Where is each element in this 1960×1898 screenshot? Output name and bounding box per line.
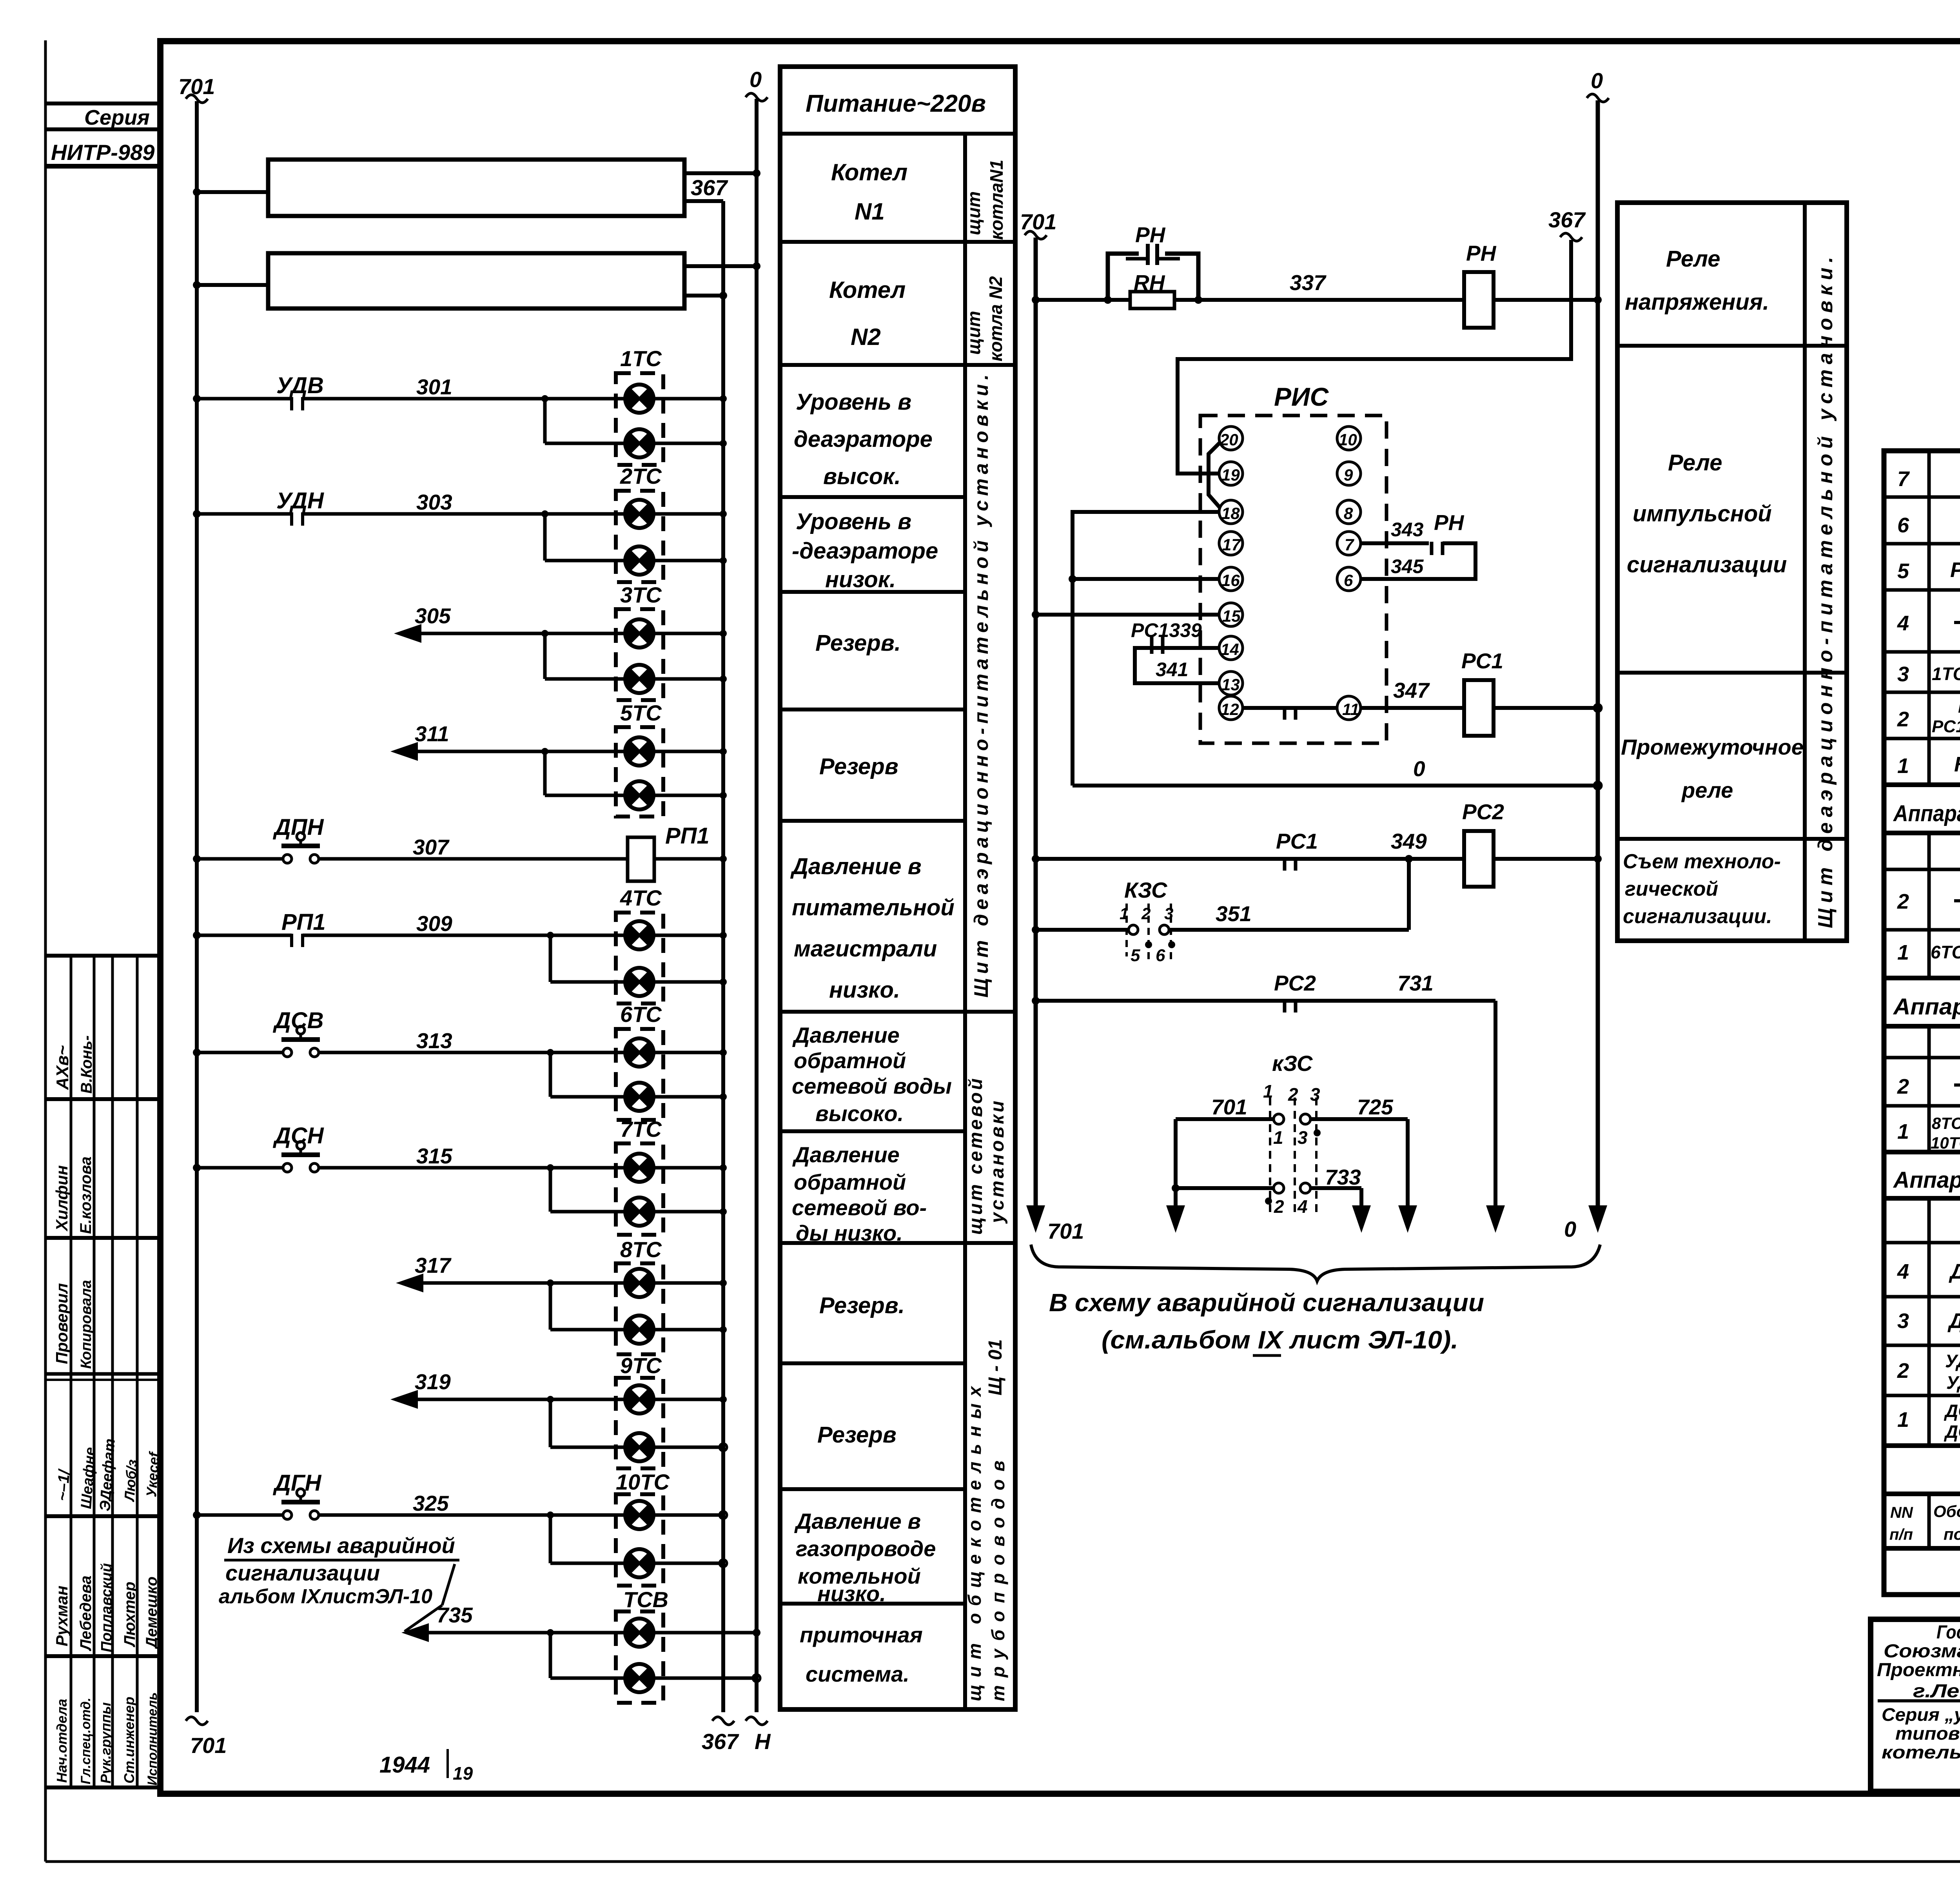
wire 0 row: [1073, 784, 1598, 788]
svg-text:325: 325: [413, 1491, 449, 1515]
terminal 19: [1219, 462, 1243, 485]
svg-text:10ТС; ТСВ: 10ТС; ТСВ: [1931, 1134, 1960, 1152]
svg-text:РИС: РИС: [1274, 382, 1329, 411]
svg-text:питательной: питательной: [792, 895, 955, 920]
wire t18 left and down to 0 row: [1073, 512, 1219, 786]
svg-text:2: 2: [1897, 708, 1909, 731]
svg-text:щит: щит: [964, 311, 984, 355]
svg-text:Промежуточное: Промежуточное: [1621, 735, 1804, 759]
terminal 17: [1219, 532, 1243, 555]
svg-text:735: 735: [437, 1603, 473, 1627]
terminal 8: [1337, 500, 1361, 524]
resistor RH: [1130, 292, 1174, 308]
svg-text:Нач.отдела: Нач.отдела: [54, 1699, 70, 1783]
svg-text:1: 1: [1897, 941, 1909, 964]
svg-text:345: 345: [1391, 555, 1424, 577]
svg-text:Резерв: Резерв: [819, 754, 898, 779]
svg-text:1: 1: [1897, 1408, 1909, 1432]
svg-text:7ТС: 7ТС: [620, 1117, 662, 1141]
lamp: [625, 968, 654, 996]
svg-text:п/п: п/п: [1889, 1526, 1913, 1543]
svg-text:Реле: Реле: [1668, 450, 1722, 475]
svg-text:Давление в: Давление в: [790, 854, 922, 879]
svg-text:сигнализации: сигнализации: [1627, 552, 1787, 577]
wire 731 with contact PC2: [1036, 999, 1495, 1003]
svg-text:РН: РН: [1466, 241, 1497, 265]
svg-text:обратной: обратной: [794, 1170, 906, 1194]
brace: [1031, 1245, 1600, 1281]
svg-text:Аппаратура на щите общекотель: Аппаратура на щите общекотельных трубопр…: [1893, 1167, 1960, 1193]
lamp: [625, 1083, 654, 1111]
contact RN in branch: [1146, 244, 1150, 265]
wire t15 from bus: [1036, 613, 1219, 617]
outer thin border left: [44, 40, 47, 1862]
svg-text:Госстрой СССР: Госстрой СССР: [1936, 1622, 1960, 1643]
vertical left of KZS group: [1174, 1119, 1178, 1207]
svg-text:9: 9: [1344, 466, 1353, 484]
lamp: [625, 737, 654, 766]
lamp: [625, 1433, 654, 1461]
svg-text:3: 3: [1897, 662, 1909, 686]
svg-text:Проверил: Проверил: [53, 1283, 71, 1364]
relay coil RP1: [628, 837, 654, 881]
svg-text:343: 343: [1391, 519, 1424, 541]
svg-text:1: 1: [1263, 1081, 1273, 1101]
svg-text:Серия „унифицированных: Серия „унифицированных: [1882, 1704, 1960, 1725]
svg-text:реле: реле: [1681, 778, 1733, 802]
svg-text:6ТС: 6ТС: [620, 1002, 662, 1027]
svg-text:305: 305: [415, 604, 451, 628]
svg-text:701: 701: [1047, 1219, 1084, 1243]
terminal 16: [1219, 567, 1243, 591]
svg-text:РС1339: РС1339: [1131, 619, 1202, 641]
svg-text:Уровень в: Уровень в: [796, 509, 911, 534]
terminal 15: [1219, 603, 1243, 626]
LEFT LADDER SCHEMATIC: [178, 67, 771, 1784]
svg-text:РП1: РП1: [281, 909, 326, 935]
LEFT SIDE STAMP: [45, 103, 162, 1787]
sub column divider: [963, 134, 967, 1709]
terminal 13: [1219, 671, 1243, 695]
svg-text:3: 3: [1164, 904, 1173, 923]
svg-text:Щит деаэрационно-питательной у: Щит деаэрационно-питательной установки.: [1814, 252, 1837, 928]
svg-text:5ТС: 5ТС: [620, 700, 662, 725]
svg-text:3ТС: 3ТС: [620, 582, 662, 607]
svg-text:2: 2: [1141, 904, 1151, 923]
svg-text:ДСН: ДСН: [1944, 1421, 1960, 1442]
arrow down bus 0: [1588, 1205, 1607, 1233]
svg-text:8ТС: 8ТС: [620, 1237, 662, 1262]
svg-text:301: 301: [416, 375, 452, 399]
svg-text:Резерв.: Резерв.: [815, 630, 901, 656]
wire box1 to 0: [684, 171, 757, 175]
svg-text:Котел: Котел: [831, 159, 907, 185]
svg-text:-деаэраторе: -деаэраторе: [792, 538, 938, 564]
svg-text:3: 3: [1310, 1084, 1320, 1105]
svg-text:напряжения.: напряжения.: [1625, 289, 1769, 315]
lamp: [625, 1501, 654, 1529]
svg-text:АХв~: АХв~: [53, 1045, 72, 1090]
svg-text:725: 725: [1357, 1095, 1394, 1119]
svg-text:4: 4: [1897, 1260, 1909, 1283]
wire t16: [1073, 577, 1219, 581]
svg-text:кЗС: кЗС: [1272, 1051, 1313, 1076]
RIGHT TALL ANNOTATION TABLE: [1617, 203, 1847, 941]
svg-text:ТСВ: ТСВ: [623, 1587, 668, 1612]
svg-text:4: 4: [1297, 1196, 1308, 1217]
svg-text:сетевой во-: сетевой во-: [792, 1195, 927, 1220]
svg-text:0: 0: [1413, 757, 1425, 781]
svg-text:установки: установки: [987, 1098, 1008, 1224]
svg-text:7: 7: [1345, 535, 1354, 554]
svg-text:РН: РН: [1135, 223, 1166, 247]
row 9: wire 317 arrow, lamp 8TC: [396, 1274, 423, 1292]
row lines: [780, 132, 1015, 136]
svg-text:10ТС: 10ТС: [616, 1470, 670, 1494]
svg-text:N2: N2: [851, 324, 881, 350]
terminal 20: [1219, 426, 1243, 450]
boiler box 2: [268, 253, 684, 308]
svg-text:Лебедева: Лебедева: [77, 1575, 94, 1651]
seriya box: [45, 102, 160, 105]
svg-text:3: 3: [1897, 1309, 1909, 1333]
svg-text:Демешко: Демешко: [143, 1577, 160, 1649]
svg-text:РП1: РП1: [1958, 697, 1960, 717]
svg-text:313: 313: [416, 1029, 452, 1053]
arrow down bus 701: [1026, 1205, 1045, 1233]
svg-text:309: 309: [416, 911, 452, 936]
svg-text:1944: 1944: [379, 1752, 430, 1778]
svg-text:367: 367: [1548, 207, 1586, 232]
svg-text:УДН: УДН: [276, 488, 324, 514]
svg-text:ды низко.: ды низко.: [796, 1221, 903, 1245]
terminal 11: [1337, 696, 1361, 720]
lamp: [625, 665, 654, 693]
vertical 731 down: [1494, 1001, 1497, 1207]
svg-text:Серия: Серия: [84, 106, 150, 129]
svg-text:Котел: Котел: [829, 277, 906, 303]
svg-text:351: 351: [1216, 902, 1252, 926]
svg-text:Резерв.: Резерв.: [819, 1293, 905, 1318]
contact RN 343-345: [1361, 541, 1429, 545]
svg-text:Давление: Давление: [792, 1023, 900, 1047]
svg-text:РС2: РС2: [1274, 971, 1316, 995]
wire box2 to 0: [684, 264, 757, 268]
svg-text:2: 2: [1274, 1196, 1284, 1217]
svg-text:низок.: низок.: [825, 567, 896, 592]
svg-text:Проектный институт N1: Проектный институт N1: [1877, 1660, 1960, 1680]
svg-text:311: 311: [415, 722, 449, 746]
svg-text:щит сетевой: щит сетевой: [965, 1076, 986, 1235]
signature table grid: [45, 954, 160, 958]
bus 367: [721, 201, 725, 1712]
svg-text:Щ - 01: Щ - 01: [985, 1339, 1006, 1395]
svg-text:12: 12: [1221, 700, 1239, 719]
svg-text:Люб/з: Люб/з: [121, 1459, 140, 1503]
boiler box 1: [268, 160, 684, 216]
svg-text:ДПН: ДПН: [272, 815, 324, 840]
svg-text:6: 6: [1344, 571, 1353, 590]
svg-text:УДВ: УДВ: [276, 373, 324, 398]
terminal 14: [1219, 636, 1243, 660]
svg-text:обратной: обратной: [794, 1048, 906, 1073]
svg-text:18: 18: [1221, 504, 1240, 523]
svg-text:Люхтер: Люхтер: [121, 1582, 138, 1648]
svg-text:~–1/: ~–1/: [54, 1468, 73, 1502]
svg-text:щит общекотельных: щит общекотельных: [964, 1379, 985, 1701]
svg-text:Питание~220в: Питание~220в: [806, 90, 986, 117]
svg-text:котлаN1: котлаN1: [986, 160, 1007, 240]
svg-text:733: 733: [1325, 1165, 1361, 1189]
svg-text:5: 5: [1897, 559, 1909, 583]
svg-text:307: 307: [413, 835, 450, 859]
svg-text:1: 1: [1897, 1120, 1909, 1143]
svg-text:6: 6: [1156, 946, 1165, 965]
svg-text:система.: система.: [806, 1662, 909, 1686]
svg-text:трубопроводов: трубопроводов: [988, 1453, 1008, 1701]
svg-text:низко.: низко.: [829, 977, 900, 1003]
lamp: [625, 1619, 654, 1647]
svg-text:Хилфин: Хилфин: [53, 1165, 71, 1232]
wire box1 left: [197, 190, 268, 194]
terminal 10: [1337, 426, 1361, 450]
svg-text:2: 2: [1288, 1084, 1298, 1105]
loop t14 t13 contact PC1 339/341: [1135, 648, 1219, 683]
jumper 20-18: [1209, 442, 1220, 508]
svg-text:Из схемы аварийной: Из схемы аварийной: [227, 1533, 455, 1558]
svg-text:сигнализации: сигнализации: [225, 1560, 380, 1585]
wire 367 to RIS terminal 19: [1178, 240, 1571, 474]
lamp: [625, 1038, 654, 1067]
svg-text:367: 367: [702, 1729, 739, 1754]
svg-text:8: 8: [1344, 504, 1353, 523]
svg-text:Аппаратура на щите сетевой: Аппаратура на щите сетевой установки.: [1893, 994, 1960, 1020]
svg-text:0: 0: [1564, 1217, 1576, 1241]
lamp: [625, 1269, 654, 1297]
svg-text:13: 13: [1221, 675, 1240, 694]
wire box2 to 367: [684, 294, 723, 298]
svg-text:по схеме: по схеме: [1944, 1525, 1960, 1543]
svg-text:367: 367: [691, 175, 728, 200]
left cell: [1878, 1699, 1960, 1702]
svg-text:Копировала: Копировала: [78, 1280, 94, 1369]
svg-text:2: 2: [1897, 1075, 1909, 1098]
svg-text:котельных с котлами: котельных с котлами: [1882, 1742, 1960, 1762]
svg-text:315: 315: [416, 1144, 453, 1168]
lamp: [625, 1316, 654, 1344]
svg-text:17: 17: [1222, 535, 1241, 554]
svg-text:импульсной: импульсной: [1633, 501, 1772, 526]
svg-text:КЗС: КЗС: [1954, 753, 1960, 776]
svg-text:3: 3: [1298, 1127, 1308, 1148]
svg-text:РП1: РП1: [665, 823, 710, 849]
svg-text:2: 2: [1897, 890, 1909, 913]
frame: [1884, 451, 1960, 1595]
relay coil RN: [1464, 272, 1494, 328]
svg-text:Поплавский: Поплавский: [98, 1563, 115, 1652]
svg-text:Обозначение: Обозначение: [1933, 1502, 1960, 1521]
svg-text:Рухман: Рухман: [53, 1586, 71, 1646]
svg-text:Уровень в: Уровень в: [796, 389, 911, 415]
svg-text:NN: NN: [1890, 1504, 1913, 1521]
lamp: [625, 1385, 654, 1414]
terminal 18: [1219, 500, 1243, 524]
svg-text:2: 2: [1897, 1359, 1909, 1383]
horizontal lines: [1884, 495, 1960, 499]
contact row A: [1176, 1117, 1274, 1121]
MIDDLE ANNOTATION TABLE: [780, 67, 1015, 1709]
row 4: wire 311 arrow, lamp 5TC: [390, 742, 418, 761]
svg-text:Рук.группы: Рук.группы: [98, 1702, 114, 1784]
wire 351 with key KZS contacts 5-6: [1036, 928, 1129, 932]
bus 0/N: [755, 99, 759, 1712]
lamp: [625, 385, 654, 413]
svg-text:Е.козлова: Е.козлова: [77, 1156, 94, 1234]
svg-text:Съем техноло-: Съем техноло-: [1623, 850, 1781, 873]
svg-text:7: 7: [1897, 467, 1910, 491]
svg-text:5: 5: [1131, 946, 1140, 965]
svg-text:701: 701: [190, 1733, 227, 1758]
svg-text:сигнализации.: сигнализации.: [1623, 905, 1772, 928]
svg-text:20: 20: [1220, 430, 1238, 449]
svg-text:РС1: РС1: [1461, 649, 1503, 673]
svg-text:Резерв: Резерв: [817, 1422, 897, 1448]
svg-text:1ТС÷5ТС: 1ТС÷5ТС: [1932, 664, 1960, 684]
lamp: [625, 619, 654, 648]
svg-text:1: 1: [1120, 904, 1129, 923]
svg-text:Укесеf: Укесеf: [143, 1451, 162, 1498]
wire box1 to 367: [684, 199, 723, 203]
row 12: wire 735 arrow, lamp TCV: [401, 1623, 429, 1642]
vertical 733 down: [1359, 1188, 1363, 1207]
svg-text:701: 701: [1211, 1095, 1247, 1119]
lamp: [625, 1664, 654, 1692]
svg-text:0: 0: [1591, 68, 1603, 93]
svg-text:2ТС: 2ТС: [620, 464, 662, 488]
svg-text:317: 317: [415, 1253, 452, 1277]
svg-text:16: 16: [1221, 571, 1240, 590]
svg-text:14: 14: [1221, 640, 1239, 659]
svg-text:деаэраторе: деаэраторе: [794, 426, 933, 452]
terminal 9: [1337, 462, 1361, 485]
terminal 7: [1337, 532, 1361, 555]
svg-text:В.Конь-: В.Конь-: [78, 1035, 95, 1094]
lamp: [625, 1154, 654, 1182]
svg-text:15: 15: [1222, 607, 1241, 625]
svg-text:Давление в: Давление в: [794, 1509, 921, 1533]
svg-text:гической: гической: [1625, 878, 1718, 900]
svg-text:701: 701: [1020, 209, 1056, 234]
lamp: [625, 781, 654, 809]
svg-text:ДГН: ДГН: [1949, 1260, 1960, 1283]
lamp: [625, 1549, 654, 1577]
svg-text:N1: N1: [855, 198, 885, 225]
vertical lines per band: [1929, 451, 1960, 1548]
wire 347: contact 12-11, coil PC1: [1243, 706, 1337, 710]
terminal 6: [1337, 567, 1361, 591]
svg-text:19: 19: [453, 1763, 473, 1784]
lamp: [625, 921, 654, 949]
svg-text:высок.: высок.: [823, 464, 901, 489]
svg-text:9ТС: 9ТС: [620, 1353, 662, 1378]
svg-text:низко.: низко.: [817, 1581, 886, 1606]
lamp: [625, 500, 654, 528]
svg-text:высоко.: высоко.: [815, 1101, 904, 1126]
svg-text:0: 0: [750, 67, 762, 92]
svg-text:сетевой воды: сетевой воды: [792, 1074, 952, 1098]
svg-text:Аппаратура на щите деаэрацион: Аппаратура на щите деаэрационно-питатель…: [1893, 801, 1960, 826]
svg-text:341: 341: [1156, 659, 1188, 680]
svg-text:УДВ,: УДВ,: [1945, 1351, 1960, 1371]
vertical 725 down: [1406, 1119, 1410, 1207]
svg-text:приточная: приточная: [800, 1622, 923, 1647]
wire 349 with contact PC1 and coil PC2: [1036, 857, 1464, 861]
svg-text:11: 11: [1342, 700, 1359, 719]
terminal 12: [1219, 696, 1243, 720]
svg-text:349: 349: [1391, 829, 1427, 853]
svg-text:Давление: Давление: [792, 1142, 900, 1167]
row 3: wire 305 arrow, lamp 3TC: [394, 624, 421, 643]
bus 701 left: [195, 101, 199, 1712]
svg-text:НИТР-989: НИТР-989: [51, 140, 154, 165]
svg-text:337: 337: [1290, 270, 1327, 295]
svg-text:альбом ІХлистЭЛ-10: альбом ІХлистЭЛ-10: [219, 1585, 432, 1608]
svg-text:731: 731: [1397, 971, 1434, 995]
svg-text:Н: Н: [755, 1729, 771, 1754]
svg-text:6: 6: [1897, 514, 1909, 537]
svg-text:щит: щит: [964, 191, 984, 235]
svg-text:1: 1: [1273, 1127, 1283, 1148]
svg-text:(см.альбом ІХ лист ЭЛ-10: (см.альбом ІХ лист ЭЛ-10).: [1102, 1326, 1458, 1354]
svg-text:303: 303: [416, 490, 452, 514]
svg-text:10: 10: [1339, 430, 1357, 449]
svg-text:1ТС: 1ТС: [620, 346, 662, 371]
svg-text:УДН: УДН: [1946, 1372, 1960, 1393]
wire box2 left: [197, 283, 268, 287]
svg-text:РН: РН: [1434, 510, 1465, 535]
row 10: wire 319 arrow, lamp 9TC: [390, 1390, 418, 1409]
svg-text:4ТС: 4ТС: [620, 885, 662, 910]
lamp: [625, 429, 654, 457]
svg-text:РИС: РИС: [1950, 558, 1960, 582]
svg-text:г.Ленинград 1970г.: г.Ленинград 1970г.: [1913, 1681, 1960, 1702]
svg-text:319: 319: [415, 1370, 451, 1394]
parallel RC branch: [1104, 296, 1112, 304]
svg-text:ДСВ: ДСВ: [1944, 1401, 1960, 1421]
TITLE BLOCK: [1871, 1619, 1960, 1791]
svg-text:Ст.инженер: Ст.инженер: [121, 1697, 137, 1784]
svg-text:6ТС;7ТС: 6ТС;7ТС: [1931, 942, 1960, 962]
outer thin border bottom: [45, 1860, 1960, 1863]
svg-text:4: 4: [1897, 611, 1909, 635]
svg-text:магистрали: магистрали: [794, 936, 937, 962]
svg-text:8ТС; 9ТС;: 8ТС; 9ТС;: [1932, 1114, 1960, 1132]
svg-text:газопроводе: газопроводе: [796, 1536, 936, 1561]
svg-text:РС1;РС2: РС1;РС2: [1932, 717, 1960, 736]
svg-text:ДСН: ДСН: [272, 1123, 324, 1149]
svg-text:347: 347: [1393, 678, 1430, 702]
contact row B: [1176, 1186, 1274, 1190]
svg-text:Щит деаэрационно-питательной у: Щит деаэрационно-питательной установки.: [970, 370, 992, 998]
svg-text:1: 1: [1897, 754, 1909, 778]
svg-text:19: 19: [1221, 466, 1240, 484]
svg-text:Реле: Реле: [1666, 246, 1720, 272]
svg-text:ДПН: ДПН: [1947, 1309, 1960, 1333]
svg-text:котла N2: котла N2: [985, 276, 1006, 361]
svg-text:КЗС: КЗС: [1124, 878, 1168, 902]
svg-text:РС2: РС2: [1462, 800, 1504, 824]
svg-text:Союзмашстройпроект: Союзмашстройпроект: [1884, 1641, 1960, 1662]
